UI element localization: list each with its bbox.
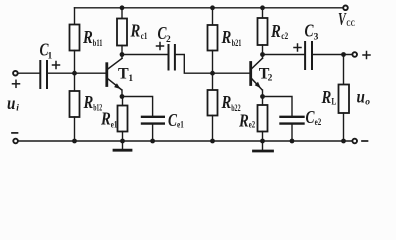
node rail Ce2: [290, 139, 295, 144]
svg-text:i: i: [16, 104, 19, 114]
wire C1 to base node: [48, 72, 106, 74]
svg-text:b11: b11: [93, 39, 103, 49]
node base T2: [210, 71, 215, 76]
svg-text:c2: c2: [281, 32, 288, 42]
resistor Rb21: [212, 8, 214, 25]
svg-text:R: R: [83, 92, 94, 112]
plus sign C3: [294, 44, 301, 51]
node rail Rb22: [210, 139, 215, 144]
resistor Rc1: [121, 8, 123, 19]
svg-text:CC: CC: [346, 19, 355, 28]
resistor Rb22: [212, 73, 214, 90]
svg-text:e1: e1: [177, 120, 184, 130]
svg-text:R: R: [238, 110, 249, 130]
node top R_c2: [260, 5, 265, 10]
ground 1: [122, 141, 124, 149]
capacitor C3: [305, 42, 312, 69]
svg-text:R: R: [221, 27, 232, 47]
resistor RL: [343, 55, 345, 85]
minus sign output: [362, 140, 368, 142]
plus sign output: [363, 52, 370, 59]
node rail Rb12: [72, 139, 77, 144]
Vcc terminal: [343, 6, 348, 11]
svg-text:L: L: [331, 97, 336, 107]
svg-text:3: 3: [314, 32, 319, 42]
ground 2: [262, 141, 264, 150]
node rail Ce1: [150, 139, 155, 144]
wire Ce2 to rail: [291, 125, 293, 142]
output - terminal: [352, 139, 357, 144]
plus sign C2: [157, 43, 164, 50]
svg-text:R: R: [130, 21, 141, 41]
wire input top: [18, 72, 39, 74]
svg-text:c1: c1: [141, 32, 148, 42]
resistor Rb11: [74, 8, 76, 25]
plus sign C1: [53, 62, 60, 69]
node top R_b21: [210, 5, 215, 10]
capacitor C2: [169, 45, 175, 70]
node RL top: [341, 52, 346, 57]
node rail RL: [341, 139, 346, 144]
wire collector1 to C2: [122, 54, 168, 56]
svg-text:u: u: [7, 93, 15, 113]
resistor Rb12: [74, 73, 76, 91]
wire emitter2 to Ce2: [263, 97, 293, 117]
wire top rail: [75, 7, 343, 9]
svg-text:T: T: [118, 65, 129, 82]
node collector T2: [260, 52, 265, 57]
capacitor C1: [40, 61, 47, 88]
node base T1: [72, 71, 77, 76]
svg-text:u: u: [357, 86, 365, 106]
node emitter T2: [260, 94, 265, 99]
node collector T1: [120, 52, 125, 57]
svg-text:R: R: [221, 92, 232, 112]
wire bottom rail: [18, 140, 352, 142]
svg-text:1: 1: [48, 52, 53, 62]
svg-text:1: 1: [128, 74, 133, 84]
capacitor Ce2: [281, 117, 304, 124]
wire collector2 to C3: [263, 54, 306, 56]
svg-text:R: R: [100, 108, 111, 128]
node emitter T1: [120, 94, 125, 99]
node rail Re2: [260, 139, 265, 144]
wire emitter1 to Ce1: [122, 97, 153, 117]
resistor Re1: [118, 106, 128, 132]
transistor T2: [249, 63, 252, 85]
output + terminal: [352, 52, 357, 57]
minus sign input: [12, 132, 18, 134]
wire Ce1 to rail: [152, 125, 154, 142]
svg-text:e2: e2: [315, 118, 322, 128]
svg-text:b21: b21: [232, 39, 242, 49]
resistor Re2: [258, 105, 268, 132]
input - terminal: [13, 139, 18, 144]
node rail Re1: [120, 139, 125, 144]
svg-text:2: 2: [268, 74, 273, 84]
node top R_c1: [120, 5, 125, 10]
svg-text:e1: e1: [111, 120, 118, 130]
input + terminal: [13, 71, 18, 76]
svg-text:R: R: [270, 21, 281, 41]
svg-text:R: R: [321, 87, 332, 107]
wire C3 to output: [313, 54, 352, 56]
resistor Rc2: [262, 8, 264, 18]
svg-text:e2: e2: [249, 121, 256, 131]
capacitor Ce1: [142, 117, 164, 124]
plus sign input: [13, 80, 20, 87]
transistor T1: [105, 64, 108, 86]
wire C2 step to base T2: [176, 55, 251, 74]
svg-text:R: R: [82, 27, 93, 47]
svg-text:o: o: [365, 98, 370, 108]
svg-text:2: 2: [166, 35, 171, 45]
